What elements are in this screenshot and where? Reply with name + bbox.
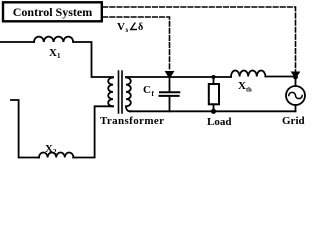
node arrowhead at capacitor junction — [166, 72, 174, 79]
capacitor Cf plates — [160, 92, 180, 96]
transformer core — [119, 71, 123, 113]
node dot at load bottom — [211, 109, 216, 114]
bottom bus wire — [130, 110, 296, 112]
svg-text:th: th — [246, 87, 252, 94]
svg-text:1: 1 — [57, 52, 61, 60]
node dot at load top — [212, 75, 216, 79]
load branch lead top — [213, 77, 215, 84]
wire X2 to open stub bottom left — [11, 100, 39, 158]
svg-text:X: X — [238, 80, 246, 92]
inductor Xth — [231, 71, 265, 77]
svg-text:∠δ: ∠δ — [129, 22, 143, 33]
inductor X1 — [34, 37, 73, 42]
wire from left edge to X1 — [0, 41, 34, 43]
wire transformer primary bottom to X2 — [73, 106, 113, 157]
transformer T1 primary winding — [108, 78, 113, 107]
load resistor box — [209, 84, 219, 104]
top bus wire transformer to Xth — [126, 76, 231, 78]
svg-text:V: V — [117, 21, 125, 33]
capacitor Cf lead bottom — [169, 97, 171, 112]
svg-text:X: X — [45, 143, 53, 155]
label Vs angle delta — [117, 21, 143, 34]
transformer secondary bottom lead — [126, 106, 130, 111]
wire Xth to grid node — [265, 76, 295, 78]
label X1 — [49, 47, 61, 60]
grid source circle — [286, 86, 305, 105]
transformer secondary winding — [126, 78, 131, 107]
grid source sine wave — [289, 92, 302, 98]
label Cf — [143, 84, 155, 98]
capacitor Cf lead top — [169, 77, 171, 92]
wire X1 to transformer primary top — [73, 42, 113, 77]
svg-text:X: X — [49, 47, 57, 59]
dashed control line to grid node — [103, 7, 296, 71]
grid source lead bottom — [295, 105, 297, 111]
svg-text:Transformer: Transformer — [100, 115, 164, 127]
node arrowhead and dot at grid junction — [292, 72, 300, 78]
grid source lead top — [295, 77, 297, 86]
svg-text:Control System: Control System — [13, 5, 92, 19]
label X2 — [45, 143, 57, 156]
svg-text:Load: Load — [207, 116, 231, 128]
dashed control line to capacitor node — [103, 17, 170, 69]
svg-text:Grid: Grid — [282, 115, 305, 127]
load branch lead bottom — [213, 104, 215, 111]
svg-text:C: C — [143, 84, 151, 96]
svg-text:2: 2 — [53, 148, 57, 156]
inductor X2 — [39, 153, 73, 158]
label Xth — [238, 80, 252, 94]
control system block — [3, 2, 102, 21]
